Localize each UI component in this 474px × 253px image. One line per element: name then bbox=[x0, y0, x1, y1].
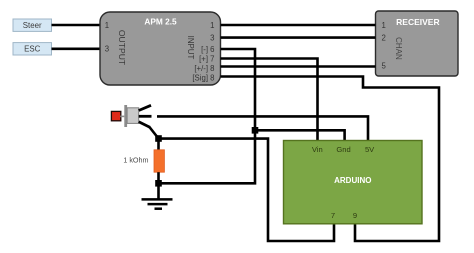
wire APM input 1 to receiver pin 1 bbox=[221, 24, 376, 27]
connector ESC bbox=[13, 43, 52, 55]
svg-text:ARDUINO: ARDUINO bbox=[334, 176, 371, 185]
svg-text:INPUT: INPUT bbox=[186, 36, 195, 60]
svg-text:ESC: ESC bbox=[24, 45, 41, 54]
svg-text:APM 2.5: APM 2.5 bbox=[144, 16, 177, 26]
switch S1 upper contact bbox=[139, 105, 151, 110]
wire APM [Sig] 8 to Arduino pin 9 bbox=[221, 77, 440, 242]
svg-text:[Sig] 8: [Sig] 8 bbox=[192, 73, 214, 82]
switch S1 plate bbox=[124, 105, 127, 127]
wire switch lower contact to resistor top node bbox=[149, 127, 159, 139]
svg-text:9: 9 bbox=[353, 211, 357, 220]
wire junction to ground bbox=[157, 183, 160, 199]
wire APM input 3 to receiver pin 2 bbox=[221, 36, 376, 39]
svg-text:1: 1 bbox=[382, 21, 386, 30]
svg-text:3: 3 bbox=[105, 45, 109, 54]
svg-text:5V: 5V bbox=[365, 145, 375, 154]
wire Arduino pin 7 to resistor top node bbox=[162, 139, 335, 241]
wire ESC to APM OUTPUT pin 3 bbox=[52, 47, 101, 50]
resistor R1 body bbox=[154, 150, 164, 172]
svg-text:1: 1 bbox=[210, 21, 214, 30]
junction on ground net bbox=[252, 127, 259, 134]
ground symbol bbox=[142, 199, 173, 208]
connector Steer bbox=[13, 19, 52, 31]
wire resistor to bottom junction bbox=[157, 172, 160, 183]
wire junction to resistor bbox=[157, 139, 160, 151]
wire switch common to Arduino 5V bbox=[157, 116, 368, 140]
switch S1 button cap bbox=[111, 111, 120, 120]
svg-text:5: 5 bbox=[382, 61, 387, 70]
svg-text:1 kOhm: 1 kOhm bbox=[123, 155, 148, 164]
svg-text:1: 1 bbox=[105, 21, 109, 30]
wire APM [+] 7 to Arduino Vin bbox=[221, 59, 318, 141]
svg-text:[-] 6: [-] 6 bbox=[201, 45, 214, 54]
switch S1 body bbox=[127, 108, 139, 124]
svg-text:[+/-] 8: [+/-] 8 bbox=[194, 64, 214, 73]
switch S1 plunger link bbox=[120, 115, 124, 117]
svg-text:OUTPUT: OUTPUT bbox=[117, 30, 127, 66]
svg-text:Vin: Vin bbox=[312, 145, 323, 154]
node resistor bottom junction bbox=[155, 180, 162, 187]
switch S1 middle contact bbox=[139, 115, 152, 118]
svg-text:Steer: Steer bbox=[23, 21, 42, 30]
svg-text:7: 7 bbox=[331, 211, 335, 220]
wire APM [+/-] 8 to receiver pin 5 bbox=[221, 65, 376, 68]
module U2 RECEIVER bbox=[376, 11, 459, 76]
module U1 APM 2.5 bbox=[100, 12, 221, 85]
svg-text:2: 2 bbox=[382, 33, 386, 42]
svg-text:RECEIVER: RECEIVER bbox=[396, 17, 439, 27]
svg-text:CHAN: CHAN bbox=[394, 37, 403, 60]
wire Steer to APM OUTPUT pin 1 bbox=[52, 24, 101, 27]
wire junction branch to Arduino Gnd bbox=[255, 130, 345, 140]
module U3 ARDUINO bbox=[284, 141, 423, 224]
svg-text:3: 3 bbox=[210, 33, 214, 42]
switch S1 lower contact bbox=[139, 122, 150, 127]
svg-text:[+] 7: [+] 7 bbox=[199, 54, 214, 63]
svg-text:Gnd: Gnd bbox=[336, 145, 350, 154]
node resistor top junction bbox=[155, 135, 162, 142]
wire APM [-] 6 to resistor bottom node bbox=[162, 49, 256, 183]
